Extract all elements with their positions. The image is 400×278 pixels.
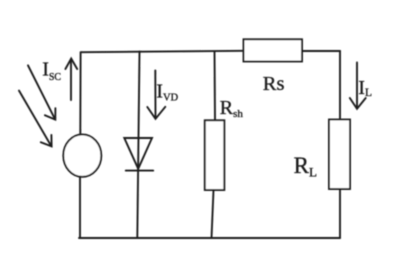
wire top rail right — [302, 50, 340, 52]
wire top rail left — [81, 51, 244, 52]
arrow ISC — [70, 60, 72, 100]
wire diode branch — [137, 52, 139, 239]
wire right vertical upper — [339, 51, 341, 120]
wire left vertical upper — [79, 52, 81, 135]
svg-text:Rs: Rs — [263, 73, 285, 95]
arrow IVD — [154, 70, 156, 117]
resistor RL — [329, 120, 350, 190]
light arrow 1 — [28, 65, 55, 119]
current source CS — [63, 134, 101, 176]
wire bottom rail — [79, 237, 340, 239]
light arrow 2 — [19, 91, 51, 146]
arrow IL — [356, 63, 358, 108]
diode D1 — [124, 138, 152, 169]
resistor RS — [244, 39, 303, 61]
wire left vertical lower — [79, 177, 81, 238]
wire Rsh branch upper — [214, 52, 217, 121]
wire right vertical lower — [339, 189, 341, 238]
resistor Rsh — [205, 120, 225, 190]
wire Rsh branch lower — [212, 190, 214, 238]
